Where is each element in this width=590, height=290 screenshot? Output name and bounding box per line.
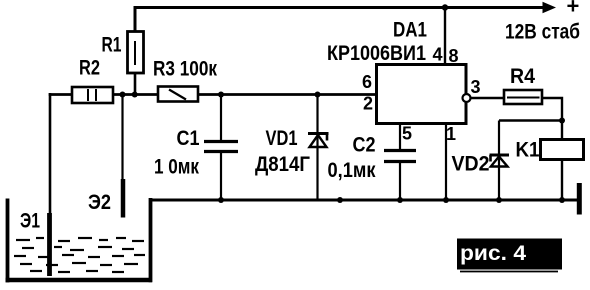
node junction R2/R3 left dot: [120, 92, 126, 98]
IC DA1 timer body: [377, 65, 467, 124]
relay K1 coil: [541, 140, 584, 160]
node VD1 junction dot: [315, 92, 321, 98]
wire left drop to electrode: [49, 93, 52, 214]
wire main horizontal: [49, 93, 377, 96]
wire K1 to rail: [561, 160, 563, 202]
wire pin5: [399, 124, 401, 149]
node junction R1 bottom dot: [132, 92, 138, 98]
capacitor C1: [204, 95, 238, 202]
node C1 junction dot: [218, 92, 224, 98]
node rail junction C1: [218, 197, 224, 203]
electrode Э1: [47, 213, 52, 276]
arrow 12V output: [543, 2, 557, 14]
svg-text:рис. 4: рис. 4: [460, 242, 526, 265]
resistor R3: [158, 87, 198, 102]
svg-text:1: 1: [446, 124, 456, 144]
diode VD2: [490, 121, 510, 201]
svg-text:R2: R2: [79, 57, 100, 80]
svg-text:R4: R4: [510, 65, 535, 88]
svg-text:2: 2: [363, 94, 373, 114]
svg-text:0,1мк: 0,1мк: [328, 159, 376, 182]
capacitor C2: [384, 151, 416, 202]
electrode Э2: [121, 179, 126, 218]
svg-text:Э2: Э2: [88, 191, 111, 214]
wire R1 bottom: [134, 73, 137, 95]
svg-text:DA1: DA1: [393, 19, 427, 42]
wire electrode E2 drop: [121, 95, 123, 181]
node supply dot: [442, 4, 448, 10]
svg-text:3: 3: [471, 77, 481, 97]
tank walls: [6, 198, 153, 282]
node rail junction VD1: [337, 197, 343, 203]
wire R4 to K1: [542, 98, 562, 139]
ground terminal bar: [577, 183, 582, 215]
svg-text:R1: R1: [102, 34, 122, 57]
node rail junction pin5/C2: [397, 197, 403, 203]
resistor R1: [128, 32, 144, 74]
svg-text:8: 8: [449, 46, 459, 66]
svg-text:VD1: VD1: [266, 127, 298, 150]
node dot VD2 branch: [559, 118, 565, 124]
svg-text:VD2: VD2: [452, 153, 490, 176]
wire pin1: [445, 124, 447, 201]
wire bottom rail: [150, 199, 580, 202]
wire pin3 to R4: [471, 97, 506, 99]
wire VD2 branch horizontal: [499, 119, 562, 121]
svg-text:12В стаб: 12В стаб: [505, 21, 580, 44]
figure label box рис. 4: [457, 239, 562, 272]
water dashes: [14, 238, 145, 272]
node rail junction pin1: [443, 197, 449, 203]
node rail junction VD2: [496, 197, 502, 203]
svg-text:4: 4: [433, 45, 443, 65]
svg-text:КР1006ВИ1: КР1006ВИ1: [327, 42, 426, 65]
svg-text:R3 100к: R3 100к: [153, 58, 217, 81]
pin 3 output circle: [463, 94, 471, 102]
svg-text:Э1: Э1: [20, 210, 40, 233]
resistor R4: [504, 90, 542, 104]
wire pin8 supply: [444, 8, 446, 65]
svg-text:6: 6: [362, 72, 372, 92]
svg-text:Д814Г: Д814Г: [255, 153, 310, 176]
wire top supply rail: [135, 8, 546, 34]
svg-text:+: +: [567, 0, 580, 19]
svg-text:1 0мк: 1 0мк: [154, 156, 199, 179]
resistor R2: [72, 87, 113, 103]
node rail junction K1: [559, 197, 565, 203]
svg-text:K1: K1: [516, 139, 540, 162]
svg-text:C1: C1: [177, 127, 200, 150]
svg-text:5: 5: [402, 124, 412, 144]
svg-text:C2: C2: [353, 134, 376, 157]
diode VD1 zener: [308, 95, 329, 201]
